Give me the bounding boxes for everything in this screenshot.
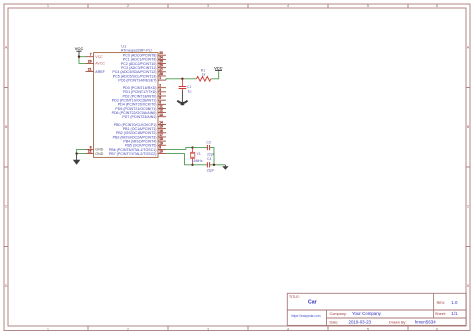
svg-text:C1: C1 xyxy=(187,85,191,89)
pin 16 PB2 (/SS/OC1B/PCINT2) xyxy=(116,129,166,135)
IC U1 ATmega328P-PU body xyxy=(94,53,159,158)
svg-text:AVCC: AVCC xyxy=(95,62,105,66)
pin 8 GND xyxy=(86,145,104,151)
svg-text:1: 1 xyxy=(159,76,161,80)
svg-text:VCC: VCC xyxy=(214,65,223,70)
svg-text:21: 21 xyxy=(88,68,92,72)
pin 19 PB5 (SCK/PCINT5) xyxy=(125,141,166,147)
svg-text:6: 6 xyxy=(436,327,438,331)
pin 21 AREF xyxy=(86,68,106,74)
wire C3 to ground rail xyxy=(210,148,214,165)
pin 14 PB0 (PCINT0/CLKO/ICP1) xyxy=(114,121,166,127)
wire node A to C3 xyxy=(193,147,207,149)
svg-text:PD7 (PCINT23/AIN1): PD7 (PCINT23/AIN1) xyxy=(122,115,156,119)
pin 11 PD5 (PCINT21/OC0B/T1) xyxy=(115,104,166,110)
svg-text:13: 13 xyxy=(159,113,163,117)
svg-text:1: 1 xyxy=(47,327,49,331)
svg-text:ATmega328P-PU: ATmega328P-PU xyxy=(121,48,152,53)
wire R1 to VCC xyxy=(211,70,219,78)
svg-text:3: 3 xyxy=(207,4,209,8)
capacitor C4 xyxy=(207,162,209,167)
svg-text:Drawn By:: Drawn By: xyxy=(389,321,407,325)
pin 7 VCC xyxy=(86,53,104,59)
ground symbol (crystal caps) xyxy=(222,165,228,170)
pin 4 PD2 (PCINT18/INT0) xyxy=(123,92,166,98)
pin 5 PD3 (PCINT19/OC2B/INT1) xyxy=(112,96,166,102)
wire C4 to ground xyxy=(210,164,225,166)
svg-text:3: 3 xyxy=(207,327,209,331)
svg-text:C3: C3 xyxy=(206,141,210,145)
resistor R1 xyxy=(197,77,211,82)
svg-text:GND: GND xyxy=(95,152,103,156)
ground symbol (below C1, dish style) xyxy=(177,91,187,106)
pin 22 GND xyxy=(86,150,104,156)
svg-text:1/1: 1/1 xyxy=(451,311,458,316)
wire pin 22 GND to ground xyxy=(77,153,86,155)
wire VCC down to pin 20 (AVCC) xyxy=(79,57,86,64)
svg-text:2019-03-23: 2019-03-23 xyxy=(349,320,372,325)
svg-text:AREF: AREF xyxy=(95,70,105,74)
ground symbol (IC GND pins) xyxy=(73,154,81,165)
svg-text:5: 5 xyxy=(367,4,369,8)
junction at GND node xyxy=(75,152,77,154)
power flag VCC (right, reset pull-up) xyxy=(214,65,223,70)
svg-text:1u: 1u xyxy=(188,90,192,94)
pin 24 PC1 (ADC1/PCINT9) xyxy=(123,55,166,61)
capacitor C3 xyxy=(207,145,209,150)
svg-text:1: 1 xyxy=(47,4,49,8)
svg-text:7: 7 xyxy=(90,53,92,57)
svg-text:Company:: Company: xyxy=(330,312,347,316)
pin 23 PC0 (ADC0/PCINT8) xyxy=(123,51,166,57)
svg-text:1k: 1k xyxy=(202,73,206,77)
svg-text:VCC: VCC xyxy=(95,55,103,59)
junction reset node xyxy=(181,78,183,80)
svg-text:22: 22 xyxy=(88,150,92,154)
svg-text:Sheet:: Sheet: xyxy=(435,312,446,316)
pin 6 PD4 (PCINT20/XCK/T0) xyxy=(118,100,166,106)
wire pin 1 RESET to RC network xyxy=(166,79,197,80)
svg-text:1.0: 1.0 xyxy=(451,300,458,305)
pin 9 PB6 (PCINT6/XTAL1/TOSC1) xyxy=(109,145,166,151)
svg-text:5: 5 xyxy=(367,327,369,331)
svg-text:Your Company: Your Company xyxy=(352,311,382,316)
power flag VCC (left, feeds pins 7 and 20) xyxy=(75,46,84,57)
svg-text:Car: Car xyxy=(308,300,317,306)
pin 12 PD6 (PCINT22/OC0A/AIN0) xyxy=(112,109,166,115)
junction ground rail xyxy=(213,164,215,166)
svg-text:22pF: 22pF xyxy=(207,168,215,172)
svg-text:10: 10 xyxy=(159,150,163,154)
pin 2 PD0 (PCINT16/RXD) xyxy=(123,84,166,90)
svg-text:Date:: Date: xyxy=(330,321,339,325)
wire pin 9 XTAL1 to node A xyxy=(166,148,193,150)
svg-text:16MHz: 16MHz xyxy=(192,159,203,163)
pin 10 PB7 (PCINT7/XTAL2/TOSC2) xyxy=(109,150,166,156)
pin 15 PB1 (OC1A/PCINT1) xyxy=(123,125,166,131)
pin 28 PC5 (ADC5/SCL/PCINT13) xyxy=(113,72,166,78)
wire pin 8 GND to ground xyxy=(77,149,86,153)
svg-text:https://easyeda.com: https://easyeda.com xyxy=(291,314,321,318)
wire pin 10 XTAL2 to node B xyxy=(166,154,193,165)
svg-text:VCC: VCC xyxy=(75,46,84,51)
pin 1 PC6 (PCINT14/RESET) xyxy=(118,76,166,82)
pin 3 PD1 (PCINT17/TXD) xyxy=(123,88,166,94)
crystal Y1 xyxy=(190,148,195,165)
title block xyxy=(287,293,466,325)
wire VCC to pin 7 xyxy=(79,56,86,58)
svg-text:C4: C4 xyxy=(207,157,211,161)
capacitor C1 xyxy=(179,79,187,91)
node A junction xyxy=(191,146,193,148)
node B junction xyxy=(191,164,193,166)
pin 18 PB4 (MISO/PCINT4) xyxy=(123,137,166,143)
pin 27 PC4 (ADC4/SDA/PCINT12) xyxy=(112,68,166,74)
svg-text:PC6 (PCINT14/RESET): PC6 (PCINT14/RESET) xyxy=(118,78,156,82)
svg-text:PB7 (PCINT7/XTAL2/TOSC2): PB7 (PCINT7/XTAL2/TOSC2) xyxy=(109,152,157,156)
pin 25 PC2 (ADC2/PCINT10) xyxy=(121,60,166,66)
svg-text:TITLE:: TITLE: xyxy=(289,295,300,299)
pin 13 PD7 (PCINT23/AIN1) xyxy=(122,113,166,119)
svg-text:2: 2 xyxy=(127,4,129,8)
svg-text:4: 4 xyxy=(287,4,289,8)
junction at VCC node xyxy=(78,56,80,58)
svg-text:20: 20 xyxy=(88,59,92,63)
svg-text:hmen5634: hmen5634 xyxy=(415,320,436,325)
svg-text:4: 4 xyxy=(287,327,289,331)
pin 20 AVCC xyxy=(86,59,106,65)
svg-text:REV:: REV: xyxy=(437,301,446,305)
svg-text:6: 6 xyxy=(436,4,438,8)
wire node B to C4 xyxy=(193,164,207,166)
pin 17 PB3 (MOSI/OC2A/PCINT3) xyxy=(113,133,166,139)
svg-text:2: 2 xyxy=(127,327,129,331)
svg-text:Y1: Y1 xyxy=(197,152,201,156)
pin 26 PC3 (ADC3/PCINT11) xyxy=(121,64,166,70)
